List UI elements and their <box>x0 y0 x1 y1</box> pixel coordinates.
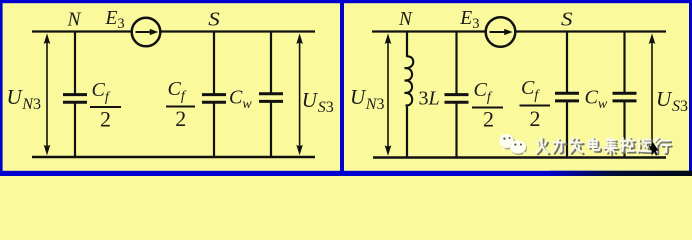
logo icon: two chat-bubble faces <box>499 134 527 155</box>
capacitor Cf/2 #1 (left panel) <box>63 32 87 158</box>
inductor 3L (right panel) <box>405 32 414 158</box>
voltage arrow UN3 (right panel) <box>385 33 392 155</box>
svg-text:2: 2 <box>483 107 494 132</box>
frame: bottom border <box>0 171 692 176</box>
value label Cf/2 #1 (left panel) <box>90 79 121 131</box>
svg-text:3L: 3L <box>419 88 440 110</box>
capacitor Cw (left panel) <box>259 32 283 158</box>
svg-text:S: S <box>561 9 573 31</box>
wire: top bus N-S (left panel) <box>32 30 315 32</box>
voltage arrow US3 (left panel) <box>296 33 303 155</box>
frame: left border <box>0 0 3 176</box>
svg-text:S: S <box>208 9 220 31</box>
svg-text:2: 2 <box>530 106 541 131</box>
wire: top bus N-S (right panel) <box>372 30 666 32</box>
voltage arrow US3 (right panel) <box>649 33 656 155</box>
frame: middle divider <box>340 0 344 176</box>
value label Cf/2 #2 (right panel) <box>520 77 551 131</box>
capacitor Cw (right panel) <box>613 32 637 158</box>
value label Cf/2 #1 (right panel) <box>472 79 503 132</box>
svg-text:2: 2 <box>175 106 186 131</box>
source E3 (left panel): circle symbol <box>132 18 161 47</box>
source E3 (right panel): circle symbol <box>486 17 516 47</box>
value label Cf/2 #2 (left panel) <box>166 78 195 131</box>
frame: right border <box>689 0 692 176</box>
wire: bottom return bus (left panel) <box>32 156 315 158</box>
svg-text:2: 2 <box>100 106 111 131</box>
svg-text:N: N <box>67 10 82 31</box>
svg-text:N: N <box>398 9 413 30</box>
wire: bottom return bus (right panel) <box>373 156 666 158</box>
voltage arrow UN3 (left panel) <box>44 33 51 155</box>
logo text 火力发电集控运行 (white layer) <box>536 137 670 153</box>
logo text 火力发电集控运行 (shadow layer) <box>538 139 672 155</box>
capacitor Cf/2 #2 (right panel) <box>555 32 579 158</box>
mouse cursor <box>652 141 659 156</box>
frame: top border <box>0 0 692 3</box>
capacitor Cf/2 #1 (right panel) <box>445 32 469 158</box>
capacitor Cf/2 #2 (left panel) <box>202 32 226 158</box>
